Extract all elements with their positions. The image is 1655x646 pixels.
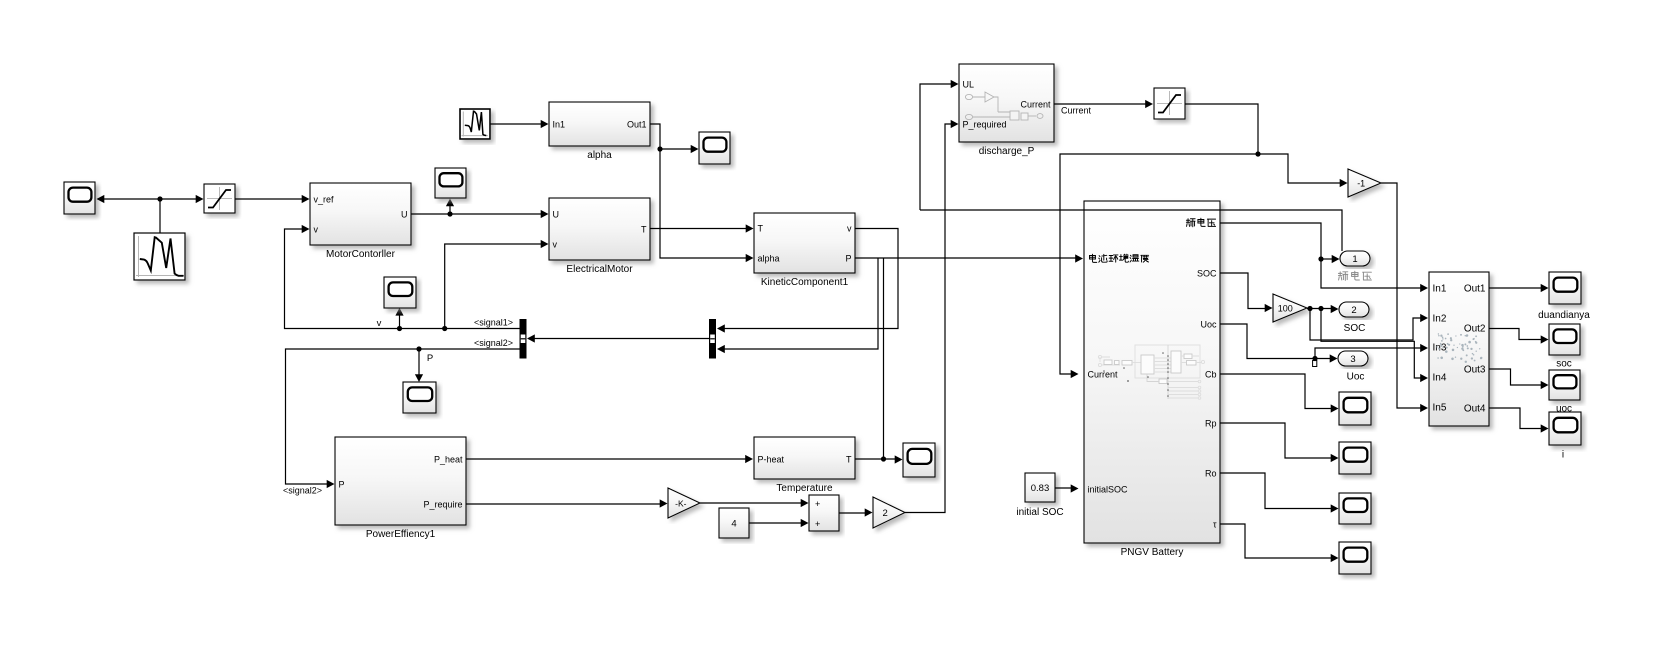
- svg-text:P: P: [427, 353, 433, 364]
- svg-text:In5: In5: [1433, 403, 1447, 414]
- wire: P branch down to bus creator input 2: [721, 258, 878, 349]
- wire: alpha junction to scope: [660, 148, 694, 150]
- svg-text:discharge_P: discharge_P: [979, 146, 1035, 157]
- svg-text:<signal2>: <signal2>: [283, 486, 322, 496]
- svg-text:T: T: [758, 224, 764, 234]
- wire: gain 2 up to discharge_P P_required: [905, 124, 954, 513]
- wire: saturation output branches to battery Current and gain -1: [1185, 104, 1258, 154]
- svg-text:Rp: Rp: [1205, 419, 1217, 429]
- svg-text:i: i: [1562, 450, 1564, 461]
- block Saturation (v_ref limiter): [204, 184, 235, 213]
- wire: battery Ro to scope: [1220, 473, 1334, 509]
- svg-text:In3: In3: [1433, 343, 1447, 354]
- wire: junction to saturation: [160, 198, 199, 200]
- wire: terminal-voltage net horizontal over battery to UL: [920, 210, 1342, 251]
- wire: battery Cb to scope: [1220, 374, 1334, 409]
- svg-text:Out2: Out2: [1464, 324, 1486, 335]
- subsystem discharge_P with internal sketch: [959, 64, 1054, 157]
- svg-text:P_required: P_required: [963, 120, 1007, 130]
- wire: gain 100 to outport 2, In2, In4: [1307, 308, 1334, 310]
- svg-text:τ: τ: [1213, 520, 1217, 530]
- junction on T wire: [881, 456, 886, 461]
- battery port label terminal voltage (Chinese): [1186, 218, 1215, 227]
- svg-text:-K-: -K-: [675, 499, 687, 509]
- svg-text:v: v: [553, 240, 558, 250]
- scope Scope (U display): [435, 168, 466, 198]
- wire: ElectricalMotor T to KineticComponent1 T: [650, 228, 749, 230]
- bus creator (mux bar): [709, 319, 716, 359]
- svg-text:alpha: alpha: [758, 254, 780, 264]
- outport 2: [1339, 302, 1369, 317]
- wire: Temperature T to scope: [855, 458, 898, 460]
- wire: Out3 to scope uoc: [1489, 369, 1544, 385]
- svg-text:In2: In2: [1433, 314, 1447, 325]
- subsystem PNGV Battery with internal sketch: [1084, 201, 1220, 558]
- outport 1 label (Chinese): [1338, 271, 1371, 280]
- scope Scope (T display): [903, 443, 935, 477]
- svg-text:Ro: Ro: [1205, 469, 1217, 479]
- svg-text:T: T: [641, 225, 647, 235]
- junction Uoc: [1312, 356, 1317, 361]
- junction on v_ref line: [157, 196, 162, 201]
- wire: KineticComponent1 v to bus creator input 1: [721, 229, 898, 329]
- svg-text:In4: In4: [1433, 373, 1447, 384]
- svg-text:P-heat: P-heat: [758, 455, 785, 465]
- outport 3: [1338, 351, 1368, 366]
- wire: saturation to MotorContorller v_ref: [235, 198, 305, 200]
- svg-text:2: 2: [883, 508, 888, 519]
- wire: discharge_P Current to saturation: [1054, 103, 1149, 105]
- scope Scope (tau): [1339, 542, 1371, 574]
- gain -K-: [668, 488, 700, 518]
- svg-text:soc: soc: [1556, 359, 1572, 370]
- svg-text:Uoc: Uoc: [1347, 372, 1365, 383]
- wire: gain -1 down to In5 of display subsystem: [1381, 183, 1424, 408]
- svg-text:1: 1: [1352, 254, 1357, 265]
- svg-text:P_heat: P_heat: [434, 455, 463, 465]
- subsystem alpha: [549, 102, 650, 161]
- svg-text:Out3: Out3: [1464, 365, 1486, 376]
- svg-text:<signal2>: <signal2>: [474, 338, 513, 348]
- svg-text:MotorContorller: MotorContorller: [326, 249, 396, 260]
- scope Scope (Ro): [1339, 493, 1371, 524]
- battery port label ambient temperature (Chinese): [1089, 254, 1148, 262]
- scope Scope (alpha display): [699, 132, 730, 164]
- constant 4: [719, 508, 749, 538]
- junction on U wire: [447, 211, 452, 216]
- gain 2: [873, 497, 905, 528]
- junction: v wire to ElectricalMotor v: [442, 326, 447, 331]
- wire: Out4 to scope i: [1489, 408, 1544, 429]
- wire: KineticComponent1 P to PNGV Battery ambient temperature input: [855, 257, 1079, 259]
- subsystem MotorContorller: [310, 183, 411, 260]
- wire: Temperature T branch up to battery ambient wire: [883, 258, 885, 459]
- scope Scope (Rp): [1339, 442, 1371, 474]
- scope duandianya: [1549, 272, 1581, 304]
- scope Scope (v_ref display, far left): [64, 182, 95, 214]
- svg-text:2: 2: [1351, 305, 1356, 316]
- svg-text:In1: In1: [553, 120, 566, 130]
- svg-text:duandianya: duandianya: [1538, 310, 1590, 321]
- wire: battery tau to scope: [1220, 524, 1334, 558]
- wire: P_require to gain -K-: [466, 503, 663, 505]
- wire: v_ref source to left scope: [100, 198, 160, 200]
- svg-text:ElectricalMotor: ElectricalMotor: [566, 264, 633, 275]
- svg-text:Current: Current: [1061, 106, 1092, 116]
- wire: battery SOC to gain 100: [1220, 273, 1268, 309]
- svg-text:Out1: Out1: [1464, 284, 1486, 295]
- wire: U output to ElectricalMotor U: [411, 213, 544, 215]
- wire: sum to gain 2: [839, 512, 868, 514]
- junctions on SOC wire: [1307, 306, 1312, 311]
- svg-text:Current: Current: [1020, 100, 1051, 110]
- junction: v wire to scope v: [397, 326, 402, 331]
- wire: alpha Out1 down to KineticComponent1 alpha, branch to scope: [650, 124, 749, 258]
- svg-text:Cb: Cb: [1205, 370, 1217, 380]
- wire: Out1 to scope duandianya: [1489, 287, 1544, 289]
- junction on alpha wire: [657, 146, 662, 151]
- svg-text:Out4: Out4: [1464, 404, 1486, 415]
- svg-text:PowerEffiency1: PowerEffiency1: [366, 529, 436, 540]
- bus selector (demux bar): [520, 319, 527, 359]
- wire: signal2 (P) to PowerEffiency1 P: [286, 349, 520, 484]
- svg-text:P: P: [339, 480, 345, 490]
- subsystem KineticComponent1: [754, 213, 855, 288]
- svg-text:SOC: SOC: [1344, 323, 1366, 334]
- svg-text:U: U: [401, 210, 408, 220]
- wire: source up to v_ref line: [159, 199, 161, 233]
- wire: 0.83 to initialSOC: [1055, 487, 1074, 489]
- svg-text:v: v: [847, 224, 852, 234]
- svg-text:P: P: [845, 254, 851, 264]
- svg-text:P_require: P_require: [423, 500, 462, 510]
- svg-text:Out1: Out1: [627, 120, 647, 130]
- svg-text:alpha: alpha: [587, 150, 612, 161]
- wire: signal1 (v) to MotorContorller v: [285, 229, 520, 329]
- svg-text:PNGV Battery: PNGV Battery: [1121, 547, 1184, 558]
- scope Scope (P display): [403, 382, 436, 413]
- svg-text:Uoc: Uoc: [1200, 320, 1217, 330]
- wire: battery Uoc to outport 3 and In3: [1220, 324, 1333, 359]
- outport 1: [1340, 251, 1370, 266]
- svg-text:0.83: 0.83: [1031, 483, 1050, 494]
- wire: v junction up to scope v: [399, 312, 401, 329]
- small stub below Uoc junction: [1313, 361, 1317, 367]
- svg-text:UL: UL: [963, 80, 975, 90]
- wire: battery terminal voltage to outport 1 and In1: [1220, 223, 1424, 288]
- block From-Workspace signal source (drive cycle): [134, 233, 185, 280]
- block signal source for alpha: [460, 109, 490, 139]
- svg-text:v_ref: v_ref: [314, 195, 335, 205]
- svg-text:4: 4: [731, 519, 736, 530]
- subsystem PowerEffiency1: [335, 437, 466, 540]
- svg-text:v: v: [377, 318, 382, 329]
- svg-text:KineticComponent1: KineticComponent1: [761, 277, 849, 288]
- svg-text:3: 3: [1350, 354, 1355, 365]
- junction terminal voltage: [1318, 256, 1323, 261]
- svg-text:-1: -1: [1357, 179, 1365, 189]
- subsystem display (In1-In5 to Out1-Out4) with noise sketch: [1429, 272, 1489, 426]
- wire: P_heat to Temperature: [466, 458, 749, 460]
- scope Scope (v display): [384, 277, 416, 308]
- svg-text:Temperature: Temperature: [776, 483, 833, 494]
- wire: P junction down to scope P: [418, 349, 420, 378]
- svg-text:In1: In1: [1433, 284, 1447, 295]
- svg-text:+: +: [815, 499, 820, 509]
- svg-text:v: v: [314, 225, 319, 235]
- sum block: [809, 495, 839, 531]
- scope Scope (Cb): [1339, 392, 1371, 425]
- svg-text:+: +: [815, 519, 820, 529]
- svg-text:U: U: [553, 210, 560, 220]
- wire: gain -K- to sum: [700, 502, 804, 504]
- junction: P wire to scope P: [416, 346, 421, 351]
- svg-text:T: T: [846, 455, 852, 465]
- wire: UL input from terminal-voltage net: [920, 84, 954, 210]
- subsystem ElectricalMotor: [549, 198, 650, 275]
- svg-text:<signal1>: <signal1>: [474, 318, 513, 328]
- scope soc: [1549, 324, 1580, 355]
- svg-text:SOC: SOC: [1197, 269, 1217, 279]
- subsystem Temperature: [754, 437, 855, 494]
- svg-text:Current: Current: [1088, 370, 1119, 380]
- svg-text:initialSOC: initialSOC: [1088, 485, 1129, 495]
- wire: constant 4 to sum: [749, 522, 804, 524]
- wire: U junction up to scope: [449, 203, 451, 214]
- wire: Out2 to scope soc: [1489, 329, 1544, 340]
- block Saturation (current limiter): [1154, 88, 1185, 119]
- junction on current wire: [1255, 151, 1260, 156]
- gain -1: [1348, 169, 1381, 197]
- constant 0.83 initial SOC: [1016, 473, 1063, 518]
- wire: battery Rp to scope: [1220, 423, 1334, 458]
- wire: bus creator output to bus selector: [531, 338, 709, 340]
- svg-text:initial SOC: initial SOC: [1016, 507, 1063, 518]
- svg-text:100: 100: [1278, 304, 1293, 314]
- wire: v junction up to ElectricalMotor v: [445, 244, 544, 329]
- gain 100: [1273, 294, 1307, 322]
- scope i: [1549, 412, 1581, 445]
- wire: source to alpha In1: [490, 123, 544, 125]
- scope uoc: [1549, 370, 1580, 400]
